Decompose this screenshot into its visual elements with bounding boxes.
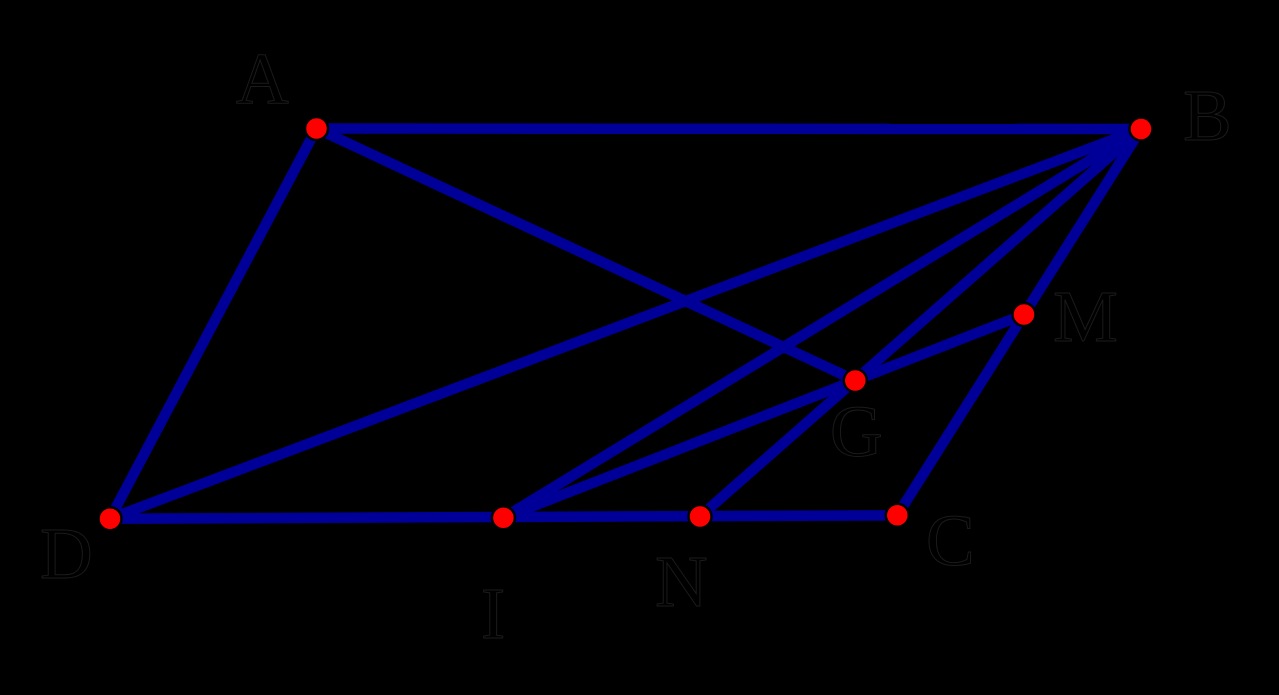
svg-text:M: M [1053, 276, 1118, 357]
svg-text:B: B [1183, 75, 1232, 156]
svg-text:D: D [40, 513, 93, 594]
node A [305, 117, 328, 140]
node D [99, 507, 122, 530]
svg-text:G: G [830, 391, 883, 472]
svg-text:N: N [655, 541, 708, 622]
node N [689, 505, 712, 528]
wire segment AG [317, 129, 856, 381]
node C [886, 504, 909, 527]
node B [1130, 118, 1153, 141]
svg-text:A: A [236, 38, 289, 119]
wire side AB [317, 123, 1142, 134]
node M [1013, 303, 1036, 326]
wire segment IB [503, 129, 1141, 518]
wire side DC through I and N [110, 515, 897, 518]
node I [492, 506, 515, 529]
wire segment IM through G [503, 315, 1024, 518]
svg-text:C: C [926, 500, 975, 581]
wire side AD [110, 129, 317, 519]
wire diagonal DB [110, 129, 1141, 519]
node G [844, 369, 867, 392]
wire side BC through M [897, 129, 1141, 515]
wire segment NB through G [700, 129, 1141, 517]
svg-text:I: I [481, 573, 505, 654]
